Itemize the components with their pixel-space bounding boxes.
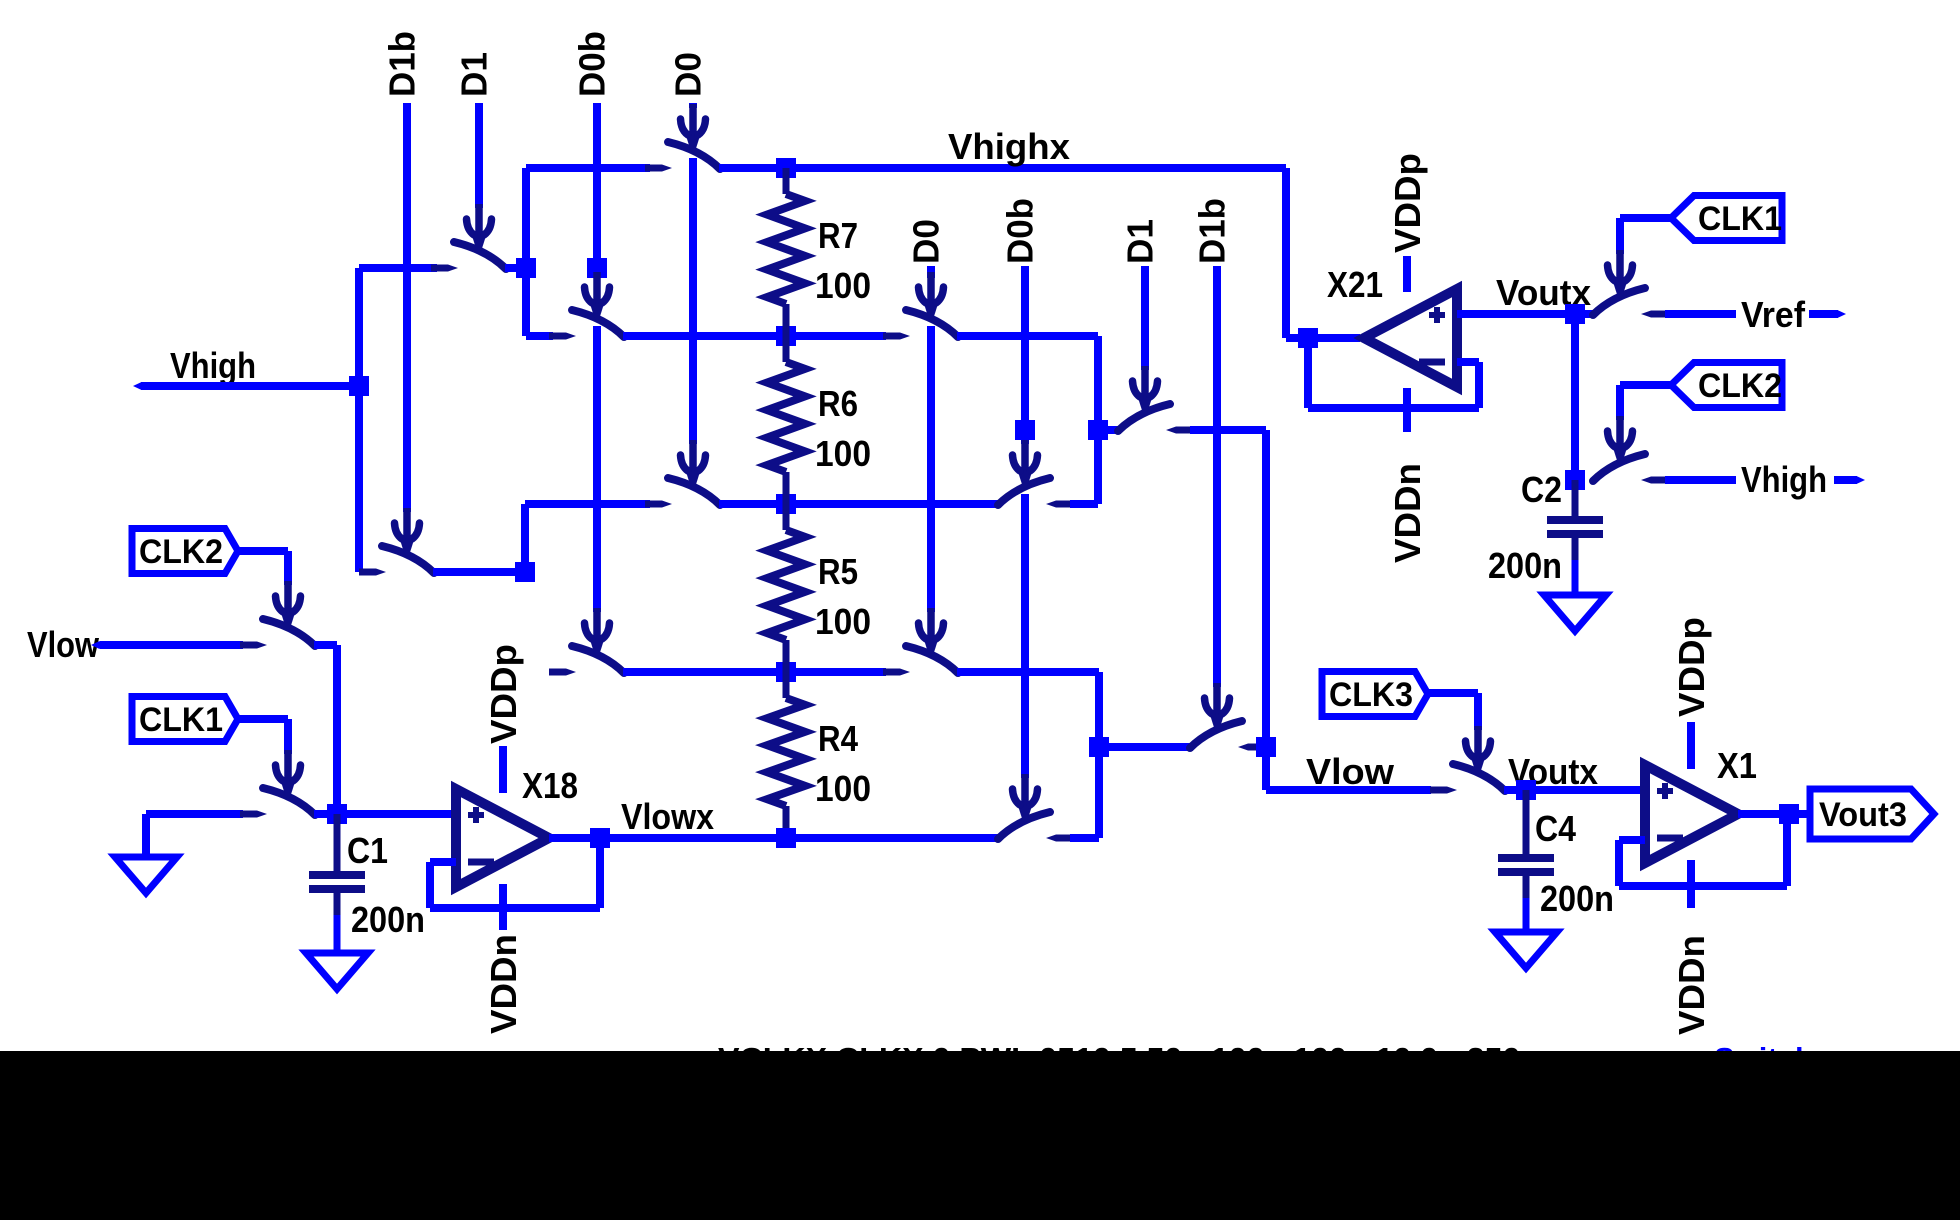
svg-text:100: 100 [815, 768, 871, 809]
wire X1 fb minus stub [1619, 836, 1645, 844]
arrow S_CLK2 left [276, 581, 301, 630]
capacitor C1 200n [309, 814, 365, 953]
wire Vref [1665, 310, 1838, 318]
power label VDDp X1 [1671, 617, 1712, 717]
flag CLK3 [1322, 672, 1428, 717]
wire CLK1r horizontal [1620, 214, 1671, 222]
junction row747 x1266 [1256, 737, 1276, 757]
wire D1b vertical [403, 103, 411, 512]
wire X1 fb left leg [1615, 840, 1623, 886]
resistor R5 100 [767, 504, 871, 672]
net label Vlow bottom [1306, 751, 1395, 792]
label X1 [1717, 745, 1757, 786]
wire Vhighx to X21 out [1286, 334, 1360, 342]
power label VDDp X21 [1387, 153, 1428, 253]
svg-text:R5: R5 [818, 551, 858, 592]
switch S_CLK2 right [1593, 454, 1668, 484]
wire x1266 vertical [1262, 430, 1270, 747]
wire X1 output [1738, 810, 1810, 818]
switch S_D0b rowB [549, 310, 624, 340]
svg-text:Vout3: Vout3 [1819, 796, 1907, 834]
arrow S_D0b-2 rowE [1013, 774, 1038, 823]
net label D0 (second) [906, 219, 947, 264]
ground left [115, 857, 177, 893]
junction on D0b second [1015, 420, 1035, 440]
net label D1b (second) [1192, 198, 1233, 264]
wire row268 left stub [359, 264, 437, 272]
switch S_CLK2 left [240, 619, 315, 649]
wire x526 vertical [522, 168, 530, 336]
switch S_D0b-2 rowE [998, 812, 1073, 842]
svg-text:R7: R7 [818, 215, 858, 256]
wire rowB right [957, 332, 1098, 340]
wire rowE left [549, 834, 998, 842]
wire row430 left stub [1098, 426, 1121, 434]
wire rowD right [957, 668, 1099, 676]
wire x1266 to Vlow row [1262, 747, 1270, 790]
svg-text:CLK2: CLK2 [139, 533, 223, 571]
wire D0 second vertical upper [927, 266, 935, 278]
svg-text:CLK1: CLK1 [1698, 200, 1782, 238]
wire rowA left [526, 164, 650, 172]
wire end Vref right [1833, 310, 1846, 318]
svg-text:Vhigh: Vhigh [170, 345, 256, 386]
junction row268 x526 [516, 258, 536, 278]
wire CLK2r horizontal [1620, 381, 1671, 389]
resistor R4 100 [767, 672, 871, 838]
wire rowA right [719, 164, 1286, 172]
svg-text:D1b: D1b [382, 31, 423, 97]
wire row572 blade to junction [433, 568, 525, 576]
svg-text:VDDn: VDDn [1671, 935, 1712, 1035]
wire rowB mid [623, 332, 886, 340]
arrow S_D0b rowB [585, 272, 610, 321]
arrow S_D1 [467, 204, 492, 253]
switch S_D0 rowC [645, 478, 720, 508]
arrow S_D0b-2 rowC [1013, 440, 1038, 489]
wire end Vhigh right [1852, 476, 1865, 484]
arrow S_D1-2 [1133, 366, 1158, 415]
net label D0b (second) [1000, 198, 1041, 264]
junction x1099 row747 [1089, 737, 1109, 757]
switch S_D0b-2 rowC [998, 478, 1073, 508]
wire Voutx to X1 [1526, 786, 1645, 794]
arrow S_D1b [395, 508, 420, 557]
flag CLK2 right [1671, 363, 1782, 408]
wire D0b second vertical upper [1021, 266, 1029, 444]
wire CLK2l vertical [284, 551, 292, 585]
flag CLK1 left [132, 697, 238, 742]
wire rowC right stub [1070, 500, 1098, 508]
power label VDDp X18 [483, 644, 524, 744]
wire X21 VDDn stub [1403, 388, 1411, 432]
wire x1098 upper vertical [1094, 336, 1102, 504]
svg-text:CLK1: CLK1 [139, 701, 223, 739]
svg-text:C4: C4 [1535, 808, 1576, 849]
svg-text:100: 100 [815, 601, 871, 642]
junction X18 output [590, 828, 610, 848]
flag Vout3 [1810, 789, 1934, 839]
wire row430 right [1190, 426, 1266, 434]
arrow S_D0b rowD [585, 608, 610, 657]
junction on D0b at row268 [587, 258, 607, 278]
net label D0b [572, 31, 613, 97]
svg-text:VDDn: VDDn [1387, 463, 1428, 563]
wire X18 fb bottom [430, 904, 600, 912]
net label Vhighx [948, 126, 1070, 167]
wire C1 node to X18 [337, 810, 456, 818]
wire Vhigh right [1665, 476, 1857, 484]
power label VDDn X1 [1671, 935, 1712, 1035]
wire X21 plus to Voutx [1457, 310, 1594, 318]
wire end Vhigh left [133, 382, 146, 390]
svg-text:D1b: D1b [1192, 198, 1233, 264]
wire D1 vertical [475, 103, 483, 208]
svg-text:X1: X1 [1717, 745, 1757, 786]
wire D0 vertical lower [689, 158, 697, 444]
junction Voutx bottom [1516, 780, 1536, 800]
arrow S_CLK1 left [276, 750, 301, 799]
wire x1099 lower vertical [1095, 672, 1103, 838]
wire D1 second vertical [1141, 266, 1149, 370]
net label Vhigh right [1736, 459, 1834, 500]
wire X21 fb up leg [1475, 362, 1483, 408]
svg-text:Vlow: Vlow [27, 624, 100, 665]
svg-text:100: 100 [815, 433, 871, 474]
wire CLK3 horizontal [1426, 689, 1478, 697]
arrow S_D0-2 rowB [919, 272, 944, 321]
label C2 [1521, 469, 1562, 510]
svg-text:Vhigh: Vhigh [1741, 459, 1827, 500]
wire rowB left [526, 332, 553, 340]
wire ground stub vertical [142, 814, 150, 857]
svg-text:Vhighx: Vhighx [948, 126, 1070, 167]
wire D0b vertical upper [593, 103, 601, 276]
svg-text:R4: R4 [818, 718, 858, 759]
svg-text:X21: X21 [1327, 264, 1383, 305]
junction row572 x525 [515, 562, 535, 582]
op-amp X21 [1364, 289, 1457, 387]
junction x1098 row430 [1088, 420, 1108, 440]
wire CLK2l blade to corner [314, 641, 337, 649]
capacitor C4 200n [1498, 790, 1554, 932]
svg-text:CLK2: CLK2 [1698, 367, 1782, 405]
svg-text:VDDp: VDDp [483, 644, 524, 744]
wire X18 VDDp stub [499, 746, 507, 793]
wire D0b second vertical lower [1021, 494, 1029, 778]
wire CLK2r vertical [1616, 385, 1624, 420]
svg-text:Vref: Vref [1741, 294, 1806, 335]
partial spice text (cropped) [718, 1041, 1814, 1076]
arrow S_D0-2 rowD [919, 608, 944, 657]
net label D0 [668, 52, 709, 97]
arrow S_CLK1 right [1608, 250, 1633, 299]
net label Vhigh left [170, 345, 256, 386]
switch S_D0-2 rowB [883, 310, 958, 340]
junction Voutx top [1565, 304, 1585, 324]
wire x525 vertical [521, 504, 529, 572]
wire CLK3 vertical [1474, 693, 1482, 730]
op-amp X1 [1645, 765, 1738, 863]
black band [0, 1051, 1960, 1220]
wire X21 VDDp stub [1403, 256, 1411, 292]
wire CLK1l blade to junction [314, 810, 337, 818]
switch S_D0 rowA [645, 142, 720, 172]
svg-text:CLK3: CLK3 [1329, 676, 1413, 714]
arrow S_D1b-2 [1205, 683, 1230, 732]
wire Vlow bottom [1266, 786, 1431, 794]
wire rowC mid [719, 500, 999, 508]
wire CLK2l horizontal [238, 547, 288, 555]
wire Vhighx corner vertical [1282, 168, 1290, 338]
junction C1 node [327, 804, 347, 824]
switch S_D1b row572 [359, 546, 434, 576]
svg-text:D1: D1 [454, 52, 495, 97]
svg-text:Vlowx: Vlowx [621, 796, 714, 837]
label C1 [347, 830, 388, 871]
wire X21 fb down leg [1304, 338, 1312, 408]
arrow S_D0 rowC [681, 440, 706, 489]
label 200n C4 [1540, 878, 1614, 919]
wire Vhigh vertical [355, 268, 363, 572]
wire rowD mid [623, 668, 886, 676]
wire X21 minus stub [1457, 358, 1479, 366]
label C4 [1535, 808, 1576, 849]
ground C4 [1495, 932, 1557, 968]
wire X18 output [549, 834, 600, 842]
wire rowE right stub [1070, 834, 1099, 842]
wire D0 second vertical lower [927, 326, 935, 612]
svg-text:VDDp: VDDp [1671, 617, 1712, 717]
wire Voutx to C2 [1571, 314, 1579, 480]
wire X18 fb left leg [426, 862, 434, 908]
wire X18 fb right leg [596, 838, 604, 908]
wire end Vlow left [91, 641, 104, 649]
net label D1b [382, 31, 423, 97]
arrow S_CLK2 right [1608, 416, 1633, 465]
wire row268 blade to junction [505, 264, 526, 272]
svg-text:C1: C1 [347, 830, 388, 871]
power label VDDn X21 [1387, 463, 1428, 563]
switch S_CLK1 left [240, 788, 315, 818]
ground C1 [306, 953, 368, 989]
svg-text:R6: R6 [818, 383, 858, 424]
net label Vlowx [621, 796, 714, 837]
wire Vlow input [100, 641, 243, 649]
svg-text:VDDn: VDDn [483, 934, 524, 1034]
svg-text:D0: D0 [906, 219, 947, 264]
switch S_D1b-2 row747 [1190, 721, 1265, 751]
net label D1 (second) [1120, 219, 1161, 264]
junction R5 bottom [776, 662, 796, 682]
svg-text:D0: D0 [668, 52, 709, 97]
wire X18 fb minus stub [430, 858, 456, 866]
junction Vhigh node [349, 376, 369, 396]
label X18 [522, 765, 578, 806]
wire CLK1r vertical [1616, 218, 1624, 254]
switch S_D0b rowD [549, 646, 624, 676]
wire X1 fb right leg [1783, 814, 1791, 886]
net label Voutx top [1496, 272, 1591, 313]
wire D0b vertical lower [593, 326, 601, 612]
svg-text:D0b: D0b [1000, 198, 1041, 264]
wire Vhigh input [141, 382, 359, 390]
wire X1 VDDp stub [1687, 722, 1695, 769]
svg-text:200n: 200n [351, 899, 425, 940]
wire X1 fb bottom [1619, 882, 1787, 890]
junction X1 output [1779, 804, 1799, 824]
ground C2 [1544, 595, 1606, 631]
wire x337 vertical [333, 645, 341, 814]
switch S_CLK1 right [1593, 288, 1668, 318]
net label Voutx bottom [1508, 751, 1598, 792]
junction C2 node [1565, 470, 1585, 490]
svg-text:X18: X18 [522, 765, 578, 806]
junction R4 bottom [776, 828, 796, 848]
op-amp X18 [456, 789, 549, 887]
svg-text:200n: 200n [1488, 545, 1562, 586]
resistor R6 100 [767, 336, 871, 504]
wire CLK1l horizontal [238, 715, 288, 723]
svg-text:D0b: D0b [572, 31, 613, 97]
wire CLK1l vertical [284, 719, 292, 754]
wire D0 vertical upper [689, 103, 697, 108]
svg-text:D1: D1 [1120, 219, 1161, 264]
resistor R7 100 [767, 168, 871, 336]
arrow S_D0 rowA [681, 104, 706, 153]
svg-text:Vlow: Vlow [1306, 751, 1395, 792]
wire X21 fb bottom [1308, 404, 1479, 412]
wire rowC left [525, 500, 650, 508]
svg-text:200n: 200n [1540, 878, 1614, 919]
wire ground stub row [146, 810, 243, 818]
wire X1 VDDn stub [1687, 860, 1695, 908]
arrow S_CLK3 [1466, 726, 1491, 775]
junction R6 bottom [776, 494, 796, 514]
net label Vref [1736, 294, 1809, 335]
svg-text:C2: C2 [1521, 469, 1562, 510]
power label VDDn X18 [483, 934, 524, 1034]
junction X21 output [1298, 328, 1318, 348]
wire D1b second vertical [1213, 266, 1221, 687]
wire CLK3 blade to junction [1504, 786, 1526, 794]
label 200n C2 [1488, 545, 1562, 586]
switch S_D1 (row 268) [431, 242, 506, 272]
label 200n C1 [351, 899, 425, 940]
capacitor C2 200n [1547, 480, 1603, 595]
net label D1 [454, 52, 495, 97]
switch S_CLK3 [1430, 764, 1505, 794]
switch S_D0-2 rowD [883, 646, 958, 676]
net label Vlow left [27, 624, 100, 665]
junction R7 top [776, 158, 796, 178]
flag CLK1 right [1671, 196, 1782, 241]
wire row747 left stub [1099, 743, 1193, 751]
svg-text:100: 100 [815, 265, 871, 306]
wire X18 VDDn stub [499, 884, 507, 930]
label X21 [1327, 264, 1383, 305]
flag CLK2 left [132, 529, 238, 574]
svg-text:VDDp: VDDp [1387, 153, 1428, 253]
switch S_D1-2 row430 [1118, 404, 1193, 434]
junction R7 bottom [776, 326, 796, 346]
